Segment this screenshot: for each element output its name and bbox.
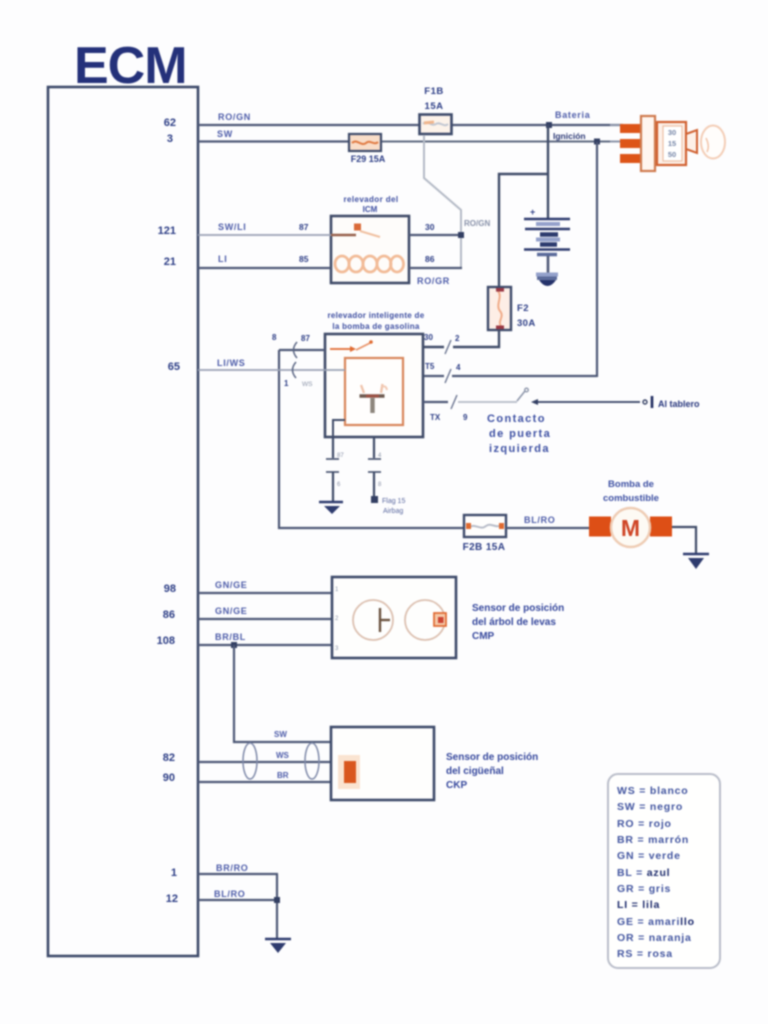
fuse F1B [420, 115, 452, 135]
svg-text:M: M [621, 515, 640, 541]
svg-text:50: 50 [668, 150, 676, 159]
legend text [617, 785, 695, 960]
svg-text:BL = azul: BL = azul [617, 867, 670, 879]
svg-text:108: 108 [157, 635, 175, 647]
svg-text:85: 85 [299, 254, 309, 264]
svg-text:relevador del: relevador del [343, 195, 398, 204]
connector mark 65 [293, 362, 297, 378]
wire F2 to smart relay pin30 [453, 330, 499, 347]
shield ellipse 2 [305, 743, 319, 779]
svg-text:BL/RO: BL/RO [524, 515, 556, 525]
svg-text:65: 65 [168, 361, 180, 373]
svg-text:GN/GE: GN/GE [215, 606, 248, 616]
wire RO/GN drop from F1B [424, 135, 461, 268]
wire BR/BL pin108 [198, 644, 333, 646]
wire internal ground [333, 420, 345, 437]
sensor CMP box [332, 577, 456, 658]
svg-text:3: 3 [167, 133, 173, 145]
svg-text:Ignición: Ignición [553, 131, 586, 141]
wire relay pin30 [409, 234, 462, 236]
svg-text:90: 90 [163, 772, 175, 784]
wire battery feed after F1B [451, 124, 623, 126]
wire LI pin21 to relay pin85 [198, 267, 331, 269]
wire SW shield drop [234, 645, 331, 742]
ground smart relay [319, 502, 343, 514]
connector mark pin4 [445, 369, 451, 383]
svg-text:RO/GR: RO/GR [417, 276, 450, 286]
svg-text:Al tablero: Al tablero [658, 399, 700, 409]
wire T5 horizontal [452, 375, 597, 377]
relay K1 ICM box [331, 216, 409, 283]
svg-text:CKP: CKP [446, 780, 467, 791]
wire stubs to switch [610, 124, 622, 126]
battery ground dome [536, 273, 558, 277]
svg-text:WS: WS [302, 381, 313, 388]
wire SW after F29 to ignition switch [381, 141, 621, 143]
svg-text:98: 98 [164, 583, 176, 595]
battery plates [524, 218, 570, 221]
svg-text:combustible: combustible [603, 493, 659, 504]
connector plate [641, 116, 655, 171]
ECM box U1 [48, 87, 198, 956]
prong 15 [620, 139, 642, 148]
svg-text:62: 62 [164, 117, 176, 129]
svg-text:F2B 15A: F2B 15A [463, 542, 506, 553]
svg-text:TX: TX [430, 413, 441, 422]
relay K1 contact arm [331, 224, 380, 238]
svg-text:86: 86 [425, 254, 435, 264]
svg-text:6: 6 [337, 482, 341, 488]
svg-text:4: 4 [378, 453, 382, 459]
prong 30 [620, 124, 642, 133]
svg-text:F1B: F1B [424, 86, 443, 97]
svg-text:GN/GE: GN/GE [215, 580, 248, 590]
svg-text:8: 8 [272, 333, 277, 342]
wire TX to door contact [423, 401, 448, 403]
ignition switch S1 [610, 116, 725, 171]
svg-text:del árbol de levas: del árbol de levas [472, 617, 556, 628]
wire ground drop pins 1-12 [276, 874, 278, 938]
wire K2 airbag stub [368, 437, 382, 503]
svg-text:87: 87 [301, 334, 310, 343]
svg-text:8: 8 [378, 482, 382, 488]
svg-text:87: 87 [337, 453, 344, 459]
svg-text:Bateria: Bateria [555, 110, 591, 120]
wire GN/GE pin98 [198, 592, 333, 594]
svg-text:BL/RO: BL/RO [214, 889, 246, 899]
svg-text:T5: T5 [425, 362, 435, 371]
svg-text:Contacto: Contacto [487, 413, 546, 425]
svg-text:SW = negro: SW = negro [617, 801, 683, 813]
wire BR pin90 [198, 781, 331, 783]
svg-text:relevador inteligente de: relevador inteligente de [327, 311, 424, 320]
svg-text:izquierda: izquierda [489, 443, 550, 455]
switch housing [657, 122, 686, 165]
switch door contact [517, 388, 528, 401]
connector mark pin2 [445, 340, 451, 354]
svg-text:LI = lila: LI = lila [617, 899, 660, 911]
svg-text:Bomba de: Bomba de [608, 479, 654, 490]
svg-text:15: 15 [668, 139, 676, 148]
relay K1 coil [335, 256, 404, 272]
svg-text:la bomba de gasolina: la bomba de gasolina [332, 322, 420, 331]
svg-text:LI: LI [218, 254, 227, 264]
svg-text:BR = marrón: BR = marrón [617, 834, 689, 846]
wire K2 ground stub [326, 437, 344, 501]
svg-text:15A: 15A [425, 101, 444, 112]
svg-text:GR = gris: GR = gris [617, 883, 671, 895]
svg-text:BR/BL: BR/BL [215, 632, 246, 642]
svg-text:30: 30 [668, 128, 676, 137]
wire F2B to pump [506, 527, 592, 529]
sensor CKP box [331, 727, 434, 800]
node junction 108 [231, 642, 237, 648]
svg-text:82: 82 [163, 752, 175, 764]
svg-text:87: 87 [299, 222, 309, 232]
relay K2 smart fuel pump box [325, 334, 423, 437]
svg-text:GE = amarillo: GE = amarillo [617, 916, 695, 928]
wire SW/LI pin121 to relay pin87 [198, 234, 331, 236]
wire RO/GN pin62 to fuse F1B [198, 124, 421, 126]
svg-text:WS = blanco: WS = blanco [617, 785, 689, 797]
relay K2 contact arm [330, 340, 373, 352]
wire GN/GE pin86b [198, 618, 333, 620]
svg-text:BR/RO: BR/RO [216, 863, 249, 873]
svg-text:F2: F2 [517, 303, 529, 314]
svg-text:2: 2 [455, 334, 460, 343]
key head [701, 126, 725, 159]
svg-text:CMP: CMP [472, 631, 495, 642]
wire to tablero [531, 396, 652, 408]
svg-text:del cigüeñal: del cigüeñal [446, 766, 504, 777]
svg-text:4: 4 [456, 363, 461, 372]
fuse F2B [464, 515, 506, 537]
svg-text:Flag 15: Flag 15 [382, 498, 405, 505]
CMP hall element [353, 600, 393, 640]
svg-text:SW/LI: SW/LI [218, 222, 247, 232]
svg-text:RO/GN: RO/GN [464, 219, 490, 228]
svg-text:GN = verde: GN = verde [617, 850, 681, 862]
wire battery vertical [547, 125, 549, 218]
wire relay pin86 [409, 267, 462, 269]
ECM module label [74, 37, 187, 95]
wire ignition to T5 vertical [596, 142, 598, 377]
svg-text:F29 15A: F29 15A [351, 154, 386, 164]
ground ECM pins [265, 939, 291, 953]
fuse F29 [349, 134, 381, 151]
svg-text:SW: SW [274, 730, 287, 739]
svg-text:9: 9 [463, 413, 468, 422]
svg-text:RO = rojo: RO = rojo [617, 818, 672, 830]
svg-text:1: 1 [284, 379, 289, 388]
svg-text:Sensor de posición: Sensor de posición [472, 603, 564, 614]
svg-text:RO/GN: RO/GN [218, 112, 251, 122]
ground fuel pump [683, 554, 709, 569]
relay K2 pump symbol [360, 384, 388, 413]
wire SW pin3 to fuse F29 [198, 140, 349, 142]
svg-text:OR = naranja: OR = naranja [617, 932, 692, 944]
prong 50 [620, 154, 642, 163]
svg-text:ICM: ICM [363, 205, 378, 214]
svg-text:121: 121 [158, 225, 176, 237]
node ignition junction [594, 139, 600, 145]
wire BR/RO pin1 [198, 873, 278, 875]
relay K2 inner module box [345, 358, 403, 425]
legend box [608, 774, 720, 968]
wire door contact grey [458, 401, 517, 403]
key cylinder [686, 130, 697, 153]
connector mark 87 [294, 342, 298, 358]
fuse F2 [488, 287, 511, 330]
svg-text:21: 21 [164, 256, 176, 268]
svg-text:12: 12 [166, 893, 178, 905]
svg-text:86: 86 [163, 609, 175, 621]
wire WS pin82 [198, 761, 331, 763]
node junction 12 [274, 897, 280, 903]
wire BL/RO pin12 [198, 899, 278, 901]
svg-text:30A: 30A [517, 318, 536, 329]
wire pin87 feed (left vertical down to pump fuse) [279, 349, 325, 351]
node Bateria junction [546, 122, 552, 128]
svg-text:+: + [530, 207, 535, 217]
motor M1 fuel pump [589, 508, 672, 547]
svg-text:RS = rosa: RS = rosa [617, 948, 673, 960]
battery B1 [524, 125, 570, 286]
svg-text:30: 30 [424, 333, 433, 342]
svg-text:1: 1 [171, 867, 177, 879]
node junction 30/RO-GN [458, 232, 464, 238]
CKP pickup element [338, 755, 360, 789]
wire battery to F2 [499, 174, 548, 287]
svg-text:30: 30 [425, 222, 435, 232]
svg-text:LI/WS: LI/WS [217, 358, 246, 368]
wire pump to ground [672, 527, 696, 553]
svg-text:de puerta: de puerta [489, 428, 551, 440]
CMP magnet wheel [405, 600, 446, 640]
svg-text:Sensor de posición: Sensor de posición [446, 752, 538, 763]
svg-text:Airbag: Airbag [383, 508, 403, 515]
connector mark pin9 [451, 395, 457, 409]
svg-text:SW: SW [217, 129, 233, 139]
battery stem [547, 256, 550, 273]
svg-text:BR: BR [277, 771, 289, 780]
shield ellipse 1 [243, 743, 257, 779]
wire LI/WS pin65 [198, 369, 345, 371]
svg-text:WS: WS [276, 751, 290, 760]
